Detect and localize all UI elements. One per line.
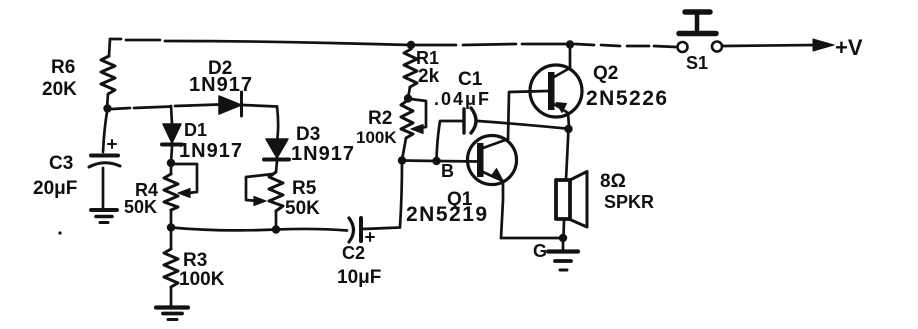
wire rail to D1 — [112, 108, 130, 109]
svg-text:C3: C3 — [49, 153, 73, 174]
node junction below R6 — [103, 104, 111, 112]
svg-text:D1: D1 — [184, 120, 207, 140]
wire top rail segment 2 — [126, 39, 160, 42]
wire dash — [601, 45, 620, 46]
capacitor C3 — [89, 112, 120, 207]
svg-text:8Ω: 8Ω — [600, 171, 626, 192]
svg-text:1N917: 1N917 — [189, 74, 253, 96]
wire C2 up to base line — [400, 162, 402, 227]
capacitor C1 — [437, 108, 567, 160]
wire top rail segment 7 (dashes to switch) — [575, 44, 594, 45]
transistor Q1 — [468, 136, 517, 201]
wire rail to D1 seg2 — [134, 107, 171, 109]
svg-text:1N917: 1N917 — [291, 143, 355, 165]
wire Q1 emitter to ground node — [501, 237, 563, 240]
potentiometer R5 — [246, 172, 283, 229]
diode D3 — [264, 139, 289, 172]
wire Q1 emitter down — [501, 200, 503, 238]
capacitor C2 — [349, 218, 400, 242]
node junction top rail R1 — [407, 41, 415, 49]
ground under R3 — [156, 308, 188, 320]
resistor R1 — [404, 45, 417, 98]
node junction R5/bottom rail — [272, 225, 280, 233]
wire base line to C1 junction — [402, 159, 436, 162]
ground under C3 — [91, 210, 117, 223]
wire dash — [654, 46, 676, 47]
speaker SPKR — [556, 172, 587, 228]
node junction Q2 emitter / C1 / speaker — [564, 125, 572, 133]
svg-text:R6: R6 — [51, 57, 75, 78]
wire Q1 collector to Q2 base — [508, 91, 548, 139]
svg-text:R3: R3 — [183, 250, 207, 271]
svg-text:1N917: 1N917 — [179, 140, 243, 162]
node junction D1/R4 — [167, 159, 175, 167]
svg-text:R2: R2 — [368, 108, 392, 129]
wire to Q1 base — [437, 160, 478, 163]
svg-text:Q2: Q2 — [593, 63, 618, 84]
wire top rail segment 4 — [411, 44, 456, 47]
node junction ground — [559, 234, 567, 242]
wire top rail left segment — [110, 38, 121, 41]
+V arrowhead — [813, 39, 834, 51]
svg-text:2N5219: 2N5219 — [406, 203, 489, 226]
potentiometer R2 — [401, 99, 426, 160]
wire node to speaker — [566, 129, 569, 180]
node junction C1/base — [432, 157, 440, 165]
node junction R1/R2 — [404, 94, 412, 102]
node junction Q2 collector / top rail — [566, 40, 574, 48]
svg-text:R5: R5 — [292, 178, 317, 199]
svg-text:SPKR: SPKR — [604, 192, 654, 212]
transistor Q2 — [530, 46, 582, 127]
svg-text:20μF: 20μF — [33, 178, 77, 199]
svg-text:2k: 2k — [418, 66, 440, 87]
resistor R3 — [164, 227, 178, 306]
svg-text:50K: 50K — [285, 198, 320, 219]
wire dash — [627, 45, 649, 48]
node junction R4/R3/rail — [167, 223, 175, 231]
svg-text:G: G — [533, 241, 547, 261]
svg-text:R1: R1 — [416, 48, 439, 68]
potentiometer R4 — [164, 163, 197, 227]
svg-text:20K: 20K — [42, 79, 77, 100]
svg-text:C1: C1 — [458, 69, 483, 90]
wire top rail segment 6 — [522, 43, 570, 46]
wire speaker to ground — [562, 219, 565, 238]
svg-text:D3: D3 — [296, 124, 320, 145]
wire switch to +V arrow — [723, 45, 816, 46]
svg-text:S1: S1 — [686, 53, 708, 73]
svg-text:.04μF: .04μF — [434, 89, 491, 109]
wire bottom rail R4 to C2 — [171, 228, 347, 231]
svg-text:2N5226: 2N5226 — [586, 87, 669, 110]
svg-text:+V: +V — [835, 35, 863, 60]
svg-text:100K: 100K — [356, 128, 397, 147]
wire top rail segment 5 — [463, 44, 516, 45]
svg-text:50K: 50K — [124, 197, 157, 217]
diode D2 — [175, 92, 277, 116]
svg-text:100K: 100K — [179, 269, 225, 290]
ground under speaker — [548, 238, 578, 270]
node junction R2/C2/base wire — [398, 156, 406, 164]
svg-text:10μF: 10μF — [337, 267, 381, 288]
stray ink dot — [58, 231, 61, 234]
switch S1 pushbutton — [678, 12, 723, 52]
diode D1 — [162, 106, 182, 163]
resistor R6 — [101, 39, 115, 108]
wire D2 to D3 — [277, 107, 278, 139]
wire top rail segment 3 — [165, 41, 411, 45]
svg-text:C2: C2 — [342, 243, 365, 263]
svg-text:B: B — [441, 161, 454, 181]
